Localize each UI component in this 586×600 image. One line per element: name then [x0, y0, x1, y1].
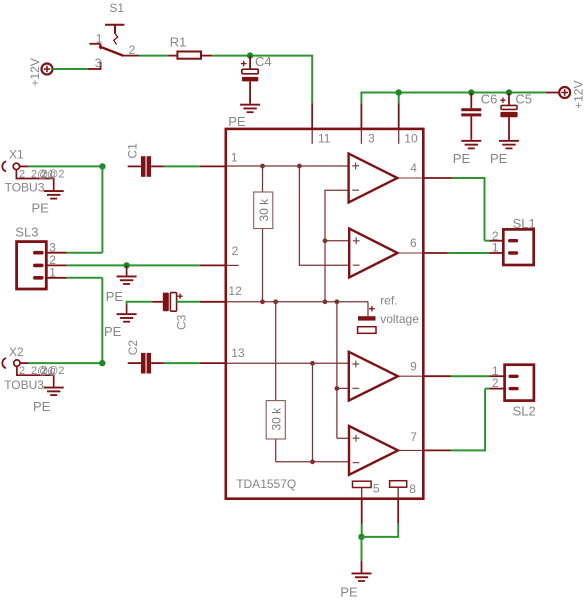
svg-text:2: 2 [19, 365, 25, 377]
svg-text:C5: C5 [515, 92, 532, 107]
svg-text:+12V: +12V [572, 81, 586, 109]
svg-text:2: 2 [492, 376, 499, 390]
svg-text:3: 3 [95, 56, 102, 70]
svg-text:TOBU3: TOBU3 [4, 378, 44, 392]
svg-text:+12V: +12V [28, 58, 42, 86]
svg-text:C4: C4 [255, 54, 272, 69]
svg-text:30 k: 30 k [269, 407, 283, 431]
svg-text:12: 12 [228, 284, 242, 298]
svg-text:10: 10 [404, 132, 418, 146]
svg-text:SL3: SL3 [15, 224, 38, 239]
svg-text:30 k: 30 k [257, 198, 271, 222]
svg-text:9: 9 [410, 359, 417, 373]
svg-text:C6: C6 [481, 92, 498, 107]
svg-text:2: 2 [232, 244, 239, 258]
svg-text:C1: C1 [126, 143, 140, 159]
svg-text:ref.: ref. [380, 293, 397, 307]
svg-text:8: 8 [409, 482, 416, 496]
svg-text:voltage: voltage [380, 312, 419, 326]
svg-text:4: 4 [410, 161, 417, 175]
svg-text:PE: PE [490, 151, 508, 166]
svg-text:1: 1 [231, 150, 238, 164]
svg-text:X2: X2 [9, 345, 24, 359]
svg-text:1: 1 [492, 241, 499, 255]
svg-text:PE: PE [32, 201, 50, 216]
svg-text:PE: PE [228, 114, 246, 129]
svg-text:S1: S1 [109, 1, 124, 15]
svg-text:13: 13 [231, 346, 245, 360]
svg-text:7: 7 [410, 430, 417, 444]
svg-text:PE: PE [453, 151, 471, 166]
svg-text:PE: PE [106, 289, 124, 304]
svg-text:11: 11 [318, 132, 331, 146]
svg-text:6: 6 [410, 236, 417, 250]
svg-text:PE: PE [33, 399, 51, 414]
svg-text:1: 1 [96, 31, 103, 45]
svg-text:C3: C3 [175, 314, 189, 330]
svg-text:TOBU3: TOBU3 [5, 180, 45, 194]
svg-text:X1: X1 [9, 148, 24, 162]
svg-text:5: 5 [373, 481, 380, 495]
svg-text:R1: R1 [170, 35, 187, 50]
svg-text:TDA1557Q: TDA1557Q [236, 477, 296, 491]
svg-text:2@2: 2@2 [41, 365, 64, 377]
svg-text:2: 2 [129, 43, 136, 57]
svg-text:PE: PE [340, 584, 358, 599]
svg-text:SL2: SL2 [513, 404, 536, 419]
svg-text:1: 1 [49, 265, 56, 279]
svg-text:3: 3 [368, 132, 375, 146]
svg-text:2@2: 2@2 [41, 168, 64, 180]
svg-text:2: 2 [19, 168, 25, 180]
svg-text:C2: C2 [126, 340, 140, 356]
svg-text:PE: PE [104, 324, 122, 339]
